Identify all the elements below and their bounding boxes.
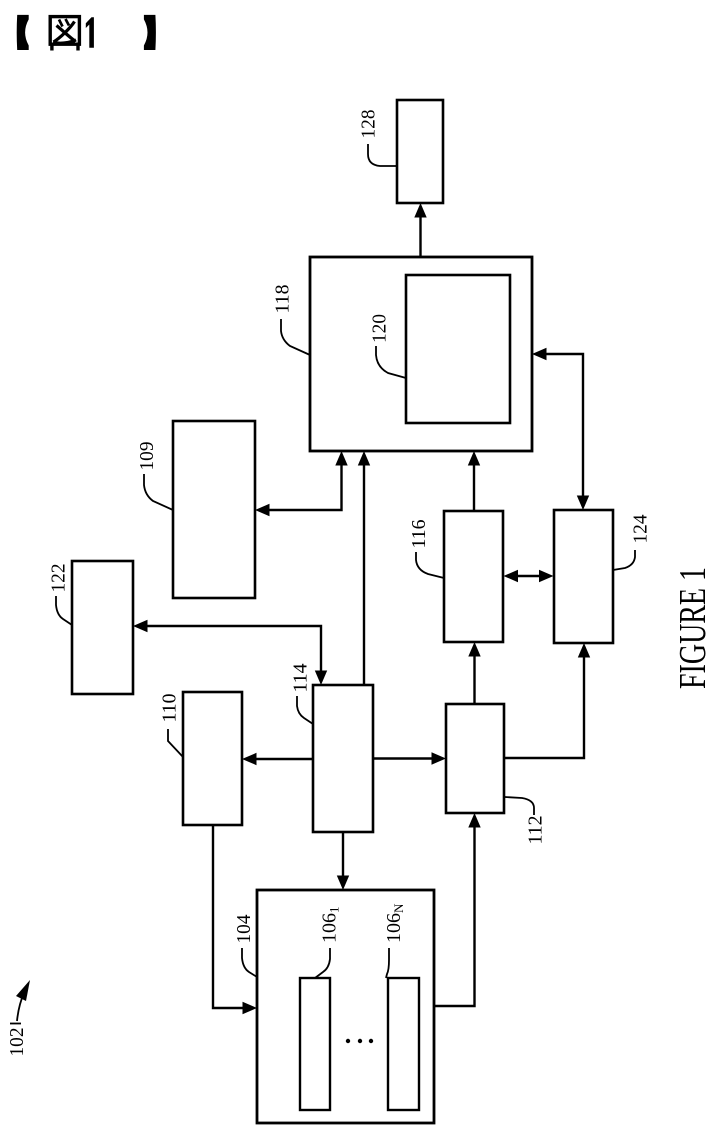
svg-text:104: 104 — [233, 915, 255, 944]
arrowhead right into 104 — [243, 1002, 258, 1014]
wire 114 to 110 — [249, 758, 313, 760]
svg-text:128: 128 — [358, 110, 380, 139]
wire 118-124 bidirectional elbow — [539, 354, 583, 503]
leader 128 — [368, 144, 397, 166]
header numeral 1 — [86, 17, 94, 48]
wire 114 to 104 — [342, 832, 344, 883]
box 122 — [72, 561, 133, 694]
arrowhead down into 104 from 114 — [337, 876, 349, 891]
leader 109 — [144, 474, 173, 510]
arrowhead down into 124 — [577, 496, 589, 511]
svg-text:FIGURE 1: FIGURE 1 — [672, 567, 706, 689]
svg-text:124: 124 — [630, 515, 652, 544]
leader 122 — [56, 596, 72, 625]
box 106_1 — [300, 978, 330, 1110]
arrowhead left into 118 from 124-elbow — [532, 348, 547, 360]
arrowhead up into 116 from 112 — [468, 642, 480, 657]
leader 116 — [416, 552, 444, 578]
box 104 — [257, 890, 434, 1123]
arrowhead left into 110 — [242, 753, 257, 765]
wire 112 to 116 — [473, 649, 475, 704]
box 128 — [397, 100, 443, 203]
wire 118-109 bidirectional elbow — [262, 458, 342, 510]
wire 104 to 112 elbow — [434, 820, 475, 1006]
svg-text:112: 112 — [525, 816, 547, 845]
svg-text:109: 109 — [136, 442, 158, 471]
leader 112 — [505, 797, 534, 815]
svg-text:122: 122 — [48, 564, 70, 593]
header bracket left — [17, 15, 29, 50]
arrowhead up into 118 from 116 — [468, 451, 480, 466]
arrowhead up into 118 from 109-elbow — [335, 451, 347, 466]
svg-text:110: 110 — [159, 694, 181, 723]
wire 112 to 124 elbow — [504, 650, 584, 758]
svg-text:116: 116 — [408, 520, 430, 549]
wire 116 to 118 — [473, 458, 475, 511]
arrowhead up into 128 — [414, 203, 426, 218]
arrowhead 102 — [16, 980, 30, 1001]
arrowhead down into 114 — [315, 671, 327, 686]
leader 106_1 — [315, 948, 330, 978]
arrowhead left into 109 — [255, 504, 270, 516]
leader arrow 102 — [10, 993, 24, 1024]
arrowhead left into 122 — [133, 620, 148, 632]
svg-text:102: 102 — [6, 1028, 28, 1057]
arrowhead right into 112 — [432, 752, 447, 764]
leader 118 — [281, 319, 310, 355]
svg-text:118: 118 — [272, 285, 294, 314]
svg-text:114: 114 — [290, 664, 312, 693]
header kanji zu (figure) — [50, 17, 79, 51]
box 110 — [183, 692, 242, 825]
box 106_N — [388, 978, 419, 1110]
leader 104 — [242, 948, 257, 977]
leader 120 — [376, 346, 406, 378]
wire 118 to 128 — [419, 210, 421, 257]
leader 114 — [297, 696, 313, 724]
ellipsis dots between 106_1 and 106_N — [346, 1039, 373, 1043]
wire 114 to 112 — [373, 757, 439, 759]
arrowhead up into 118 from 114 — [358, 451, 370, 466]
arrowhead right into 124 — [539, 570, 554, 582]
wire 122-114 elbow — [140, 626, 321, 678]
box 116 — [444, 511, 503, 642]
box 109 — [173, 421, 255, 598]
svg-text:120: 120 — [369, 314, 391, 343]
leader 106_N — [386, 948, 389, 978]
wire 114 to 118 — [363, 458, 365, 685]
arrowhead up into 124 from 112 — [578, 643, 590, 658]
box 118 — [310, 257, 532, 451]
wire 110 to 104 elbow — [213, 825, 250, 1008]
box 114 — [313, 685, 373, 832]
box 120 — [406, 275, 510, 423]
arrowhead left into 116 — [504, 570, 519, 582]
leader 124 — [613, 550, 635, 570]
box 124 — [554, 510, 613, 643]
header bracket right — [144, 15, 156, 50]
wire 116-124 bidirectional — [510, 575, 547, 577]
box 112 — [446, 704, 504, 813]
leader 110 — [168, 729, 183, 757]
arrowhead up into 112 from 104 — [468, 813, 480, 828]
